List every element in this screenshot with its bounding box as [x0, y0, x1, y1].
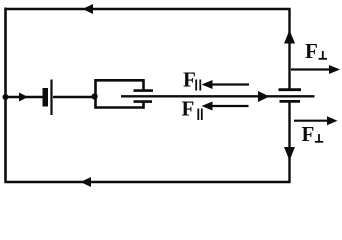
box right edge upper to capacitor C1	[142, 79, 145, 91]
wire left vertical	[4, 8, 7, 183]
svg-text:F: F	[183, 68, 196, 92]
svg-text:F: F	[302, 122, 315, 146]
current arrow bottom (left)	[81, 177, 92, 187]
force arrow F-parallel upper (left)	[210, 83, 249, 85]
svg-text:F: F	[305, 39, 318, 63]
wire right vertical upper	[288, 8, 290, 90]
wire battery to box	[53, 96, 95, 98]
box top edge	[94, 79, 144, 82]
current arrow right-upper (up)	[284, 30, 295, 44]
label F-perp upper	[305, 39, 327, 63]
current arrow right-lower (down)	[284, 147, 295, 161]
capacitor C1 top plate	[134, 89, 154, 92]
capacitor C1 bottom plate	[134, 100, 153, 103]
box right edge lower to capacitor C1	[142, 101, 145, 109]
box bottom edge	[94, 106, 144, 109]
wire middle from junction to battery	[6, 96, 44, 98]
node junction at box	[92, 93, 98, 99]
center conductor wire	[121, 95, 315, 97]
box left edge	[94, 79, 97, 109]
wire top horizontal	[5, 8, 291, 10]
label F-parallel upper	[183, 68, 200, 92]
current arrow top (left)	[83, 4, 94, 14]
capacitor C2 top plate	[279, 88, 302, 91]
node junction at left wire	[3, 94, 9, 100]
wire right vertical lower	[288, 102, 290, 183]
current arrow on center conductor (right)	[258, 91, 270, 102]
svg-text:F: F	[182, 97, 195, 121]
label F-parallel lower	[182, 97, 202, 121]
force arrow F-parallel lower (left)	[211, 105, 249, 107]
capacitor C2 bottom plate	[280, 100, 301, 103]
force arrow F-perp upper (right)	[291, 68, 331, 70]
battery B1 negative plate (short thick)	[43, 88, 49, 107]
wire bottom horizontal	[5, 181, 291, 184]
force arrow F-perp lower (right)	[294, 120, 329, 122]
battery B1 positive plate (long thin)	[50, 80, 52, 116]
current arrow middle (right)	[19, 93, 28, 102]
label F-perp lower	[302, 122, 324, 146]
